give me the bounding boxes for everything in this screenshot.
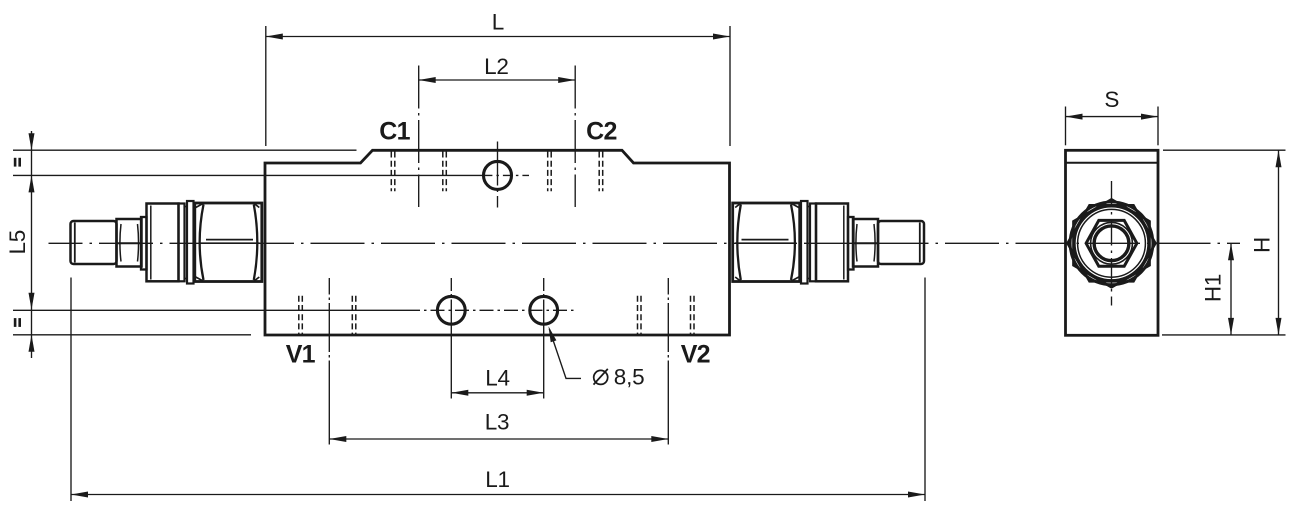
H extension line top [1163,149,1286,151]
side view nut hexagon A [1068,205,1156,281]
side view top step line [1066,162,1159,164]
L4 arrows [451,390,468,396]
L1 extension line left [70,278,72,502]
svg-text:V1: V1 [286,340,316,368]
L2 dimension line [419,79,576,81]
right cartridge: ring bands [801,201,816,284]
svg-text:L5: L5 [5,230,30,254]
svg-text:L1: L1 [485,467,509,492]
H arrows [1276,150,1282,167]
side view bore circle [1094,226,1129,261]
L5 dimension line [31,131,33,358]
right cartridge: flange washer [848,217,854,270]
L5 extension line bottom (body bottom) [13,334,251,336]
side view socket hexagon [1086,220,1137,266]
left cartridge: flange washer [141,217,147,270]
port C2 hidden thread lines [548,152,603,192]
L1 extension line right [924,278,926,502]
top hole horizontal centerline dash part [483,174,529,176]
leader arrow to hole [549,326,557,342]
L4 dimension line [451,392,543,394]
side view nut inscribed circle [1074,206,1149,281]
H1 dimension line [1230,243,1232,335]
C1 port centerline [418,66,420,208]
top center mounting hole [484,161,512,189]
bottom holes horizontal centerline dash part [406,309,576,311]
diameter symbol [594,369,608,385]
bottom hole right centerline [543,278,545,399]
L3 arrows [329,436,346,442]
L3 dimension line [329,438,668,440]
L5 equal-mark arrow top [29,133,35,150]
S extension lines [1065,107,1067,146]
svg-text:C1: C1 [379,118,410,146]
left cartridge: hex nut [195,203,262,282]
svg-text:H: H [1250,237,1275,253]
right cartridge: stem [878,221,924,264]
L dimension line [266,36,730,38]
H extension line bottom [1162,334,1286,336]
svg-text:C2: C2 [586,118,616,146]
top hole vertical centerline [497,142,499,208]
side view socket circle [1091,222,1133,264]
H dimension line [1278,150,1280,335]
L5 equal-mark arrow bottom [29,335,35,352]
dia 8,5 leader line [549,329,581,378]
port V1 hidden thread lines [299,296,356,335]
bottom mounting hole right (dia 8,5) [530,296,558,324]
svg-text:L2: L2 [484,54,508,79]
S dimension line [1066,116,1159,118]
side view body [1066,150,1159,335]
svg-text:8,5: 8,5 [614,364,645,389]
L1 dimension line [71,494,925,496]
right cartridge: small hex [853,219,878,267]
L extension line right [729,26,731,146]
left cartridge: spring cylinder [147,204,179,282]
equal mark top [14,158,17,167]
L arrows [266,34,283,40]
L5 arrow upper [29,175,35,192]
side view nut hexagon B [1073,199,1149,287]
left cartridge: small hex [117,219,142,267]
L5 extension line top (raised face) [13,149,357,151]
equal mark bottom [14,318,17,327]
side view nut chamfer circle [1070,202,1153,285]
right cartridge: spring cylinder [816,204,848,282]
svg-text:L3: L3 [485,410,509,435]
bottom hole left centerline [450,278,452,399]
main horizontal centerline [49,242,1241,244]
bottom holes horizontal centerline solid part [13,309,406,311]
right cartridge: hex nut [733,203,800,282]
port V2 hidden thread lines [638,296,695,335]
left cartridge: ring bands [179,201,194,284]
side view washer circle [1078,209,1146,277]
svg-text:S: S [1104,87,1119,112]
port C1 hidden thread lines [391,152,446,192]
side view vertical centerline [1111,181,1113,306]
L1 arrows [71,492,88,498]
L5 arrow lower [29,293,35,310]
C2 port centerline [574,66,576,208]
valve body (front view) [265,150,730,335]
L extension line left [265,26,267,146]
V1 port centerline [328,278,330,445]
V2 port centerline [667,278,669,445]
svg-text:H1: H1 [1201,274,1226,302]
S arrows [1066,114,1083,120]
svg-text:L4: L4 [485,366,509,391]
L2 arrows [419,77,436,83]
svg-text:V2: V2 [681,340,710,368]
bottom mounting hole left (dia 8,5) [437,296,465,324]
svg-text:L: L [492,10,504,35]
top hole horizontal centerline solid part [13,174,483,176]
H1 arrows [1228,243,1234,260]
left cartridge: stem [71,221,117,264]
